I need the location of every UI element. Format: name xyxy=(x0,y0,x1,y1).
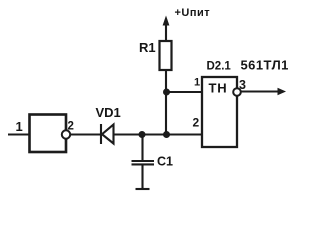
svg-text:2: 2 xyxy=(68,121,74,133)
svg-text:С1: С1 xyxy=(157,155,173,169)
svg-text:ТН: ТН xyxy=(209,81,228,96)
svg-text:R1: R1 xyxy=(139,40,156,55)
svg-text:1: 1 xyxy=(16,119,23,134)
svg-text:+Uпит: +Uпит xyxy=(175,7,211,19)
svg-text:561ТЛ1: 561ТЛ1 xyxy=(241,58,289,73)
svg-text:VD1: VD1 xyxy=(96,105,121,120)
svg-text:D2.1: D2.1 xyxy=(207,61,232,73)
svg-text:2: 2 xyxy=(193,116,200,130)
svg-text:3: 3 xyxy=(239,78,246,92)
svg-text:1: 1 xyxy=(194,77,200,89)
